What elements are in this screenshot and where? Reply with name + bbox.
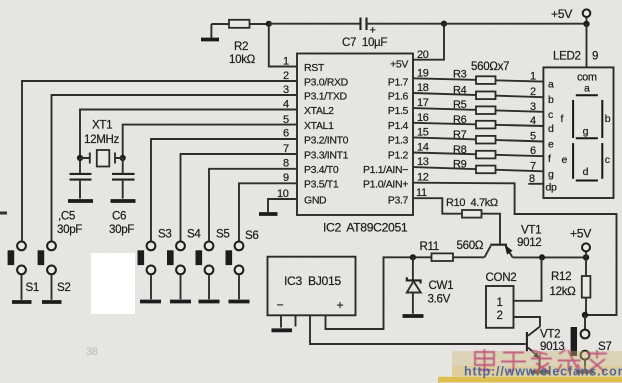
svg-text:P1.5: P1.5 xyxy=(388,105,409,117)
connector CON2 xyxy=(486,271,517,328)
wire pin15 to LED pin5 xyxy=(413,137,543,141)
svg-text:7: 7 xyxy=(530,160,536,172)
svg-text:−: − xyxy=(277,298,284,312)
svg-text:9: 9 xyxy=(283,172,289,184)
resistor R9 xyxy=(453,159,496,174)
wire pin18 to LED pin2 xyxy=(413,93,543,97)
stray scan mark left edge xyxy=(0,212,7,215)
svg-text:11: 11 xyxy=(416,187,427,199)
node XTAL-left xyxy=(77,155,83,161)
svg-text:P1.0/AIN+: P1.0/AIN+ xyxy=(363,179,408,191)
svg-text:b: b xyxy=(548,94,554,106)
resistor R11 xyxy=(420,239,484,261)
ground (S5) xyxy=(199,300,220,304)
resistor R7 xyxy=(453,129,496,144)
svg-text:S6: S6 xyxy=(245,229,258,242)
svg-text:P1.3: P1.3 xyxy=(388,135,409,147)
resistor R6 xyxy=(453,114,496,128)
ground (VT2 emitter) xyxy=(531,370,550,374)
wire LED pin8 dp stub xyxy=(528,183,543,185)
ic IC2 AT89C2051 xyxy=(297,54,413,235)
svg-text:5: 5 xyxy=(530,131,536,143)
svg-text:S3: S3 xyxy=(158,228,171,241)
svg-text:6: 6 xyxy=(530,145,536,157)
watermark highlight band xyxy=(452,351,622,367)
wire IC3 pin minus stub xyxy=(280,315,282,327)
ic IC3 BJ015 xyxy=(268,257,356,316)
ground (S1) xyxy=(12,300,32,304)
svg-text:C6: C6 xyxy=(112,210,126,223)
node B (pin20 junction) xyxy=(441,21,447,27)
svg-text:R8: R8 xyxy=(453,144,467,156)
svg-text:9: 9 xyxy=(592,50,598,63)
segment d xyxy=(576,166,598,181)
svg-text:R2: R2 xyxy=(234,40,248,53)
svg-text:R4: R4 xyxy=(453,85,467,97)
node D (CW1/R11 junction) xyxy=(410,254,416,260)
resistor R8 xyxy=(453,144,496,158)
svg-text:P3.0/RXD: P3.0/RXD xyxy=(304,77,349,89)
svg-text:30pF: 30pF xyxy=(109,223,134,236)
switch S4 xyxy=(167,228,201,300)
svg-text:R5: R5 xyxy=(453,99,467,111)
svg-text:R10 4.7kΩ: R10 4.7kΩ xyxy=(446,197,498,209)
svg-text:VT1: VT1 xyxy=(521,224,541,237)
resistor R2 xyxy=(229,20,256,66)
svg-text:VT2: VT2 xyxy=(540,328,560,341)
wire IC3 stub 2 xyxy=(295,315,297,326)
svg-text:GND: GND xyxy=(304,195,327,207)
svg-text:g: g xyxy=(583,126,589,138)
resistor R12 xyxy=(550,257,591,315)
segment e (lower-left bar) xyxy=(562,143,574,179)
svg-text:12: 12 xyxy=(417,172,429,184)
svg-text:4: 4 xyxy=(530,115,536,127)
svg-text:e: e xyxy=(562,154,568,166)
svg-text:P1.4: P1.4 xyxy=(388,120,409,132)
wire node A to C7 xyxy=(269,23,361,25)
segment c (lower-right bar) xyxy=(602,143,609,179)
switch S2 xyxy=(38,242,71,300)
wire pin17 to LED pin3 xyxy=(413,108,543,112)
svg-text:c: c xyxy=(605,154,610,166)
zener diode CW1 xyxy=(407,257,453,314)
svg-text:S2: S2 xyxy=(57,281,70,294)
svg-text:dp: dp xyxy=(546,182,557,194)
svg-text:CON2: CON2 xyxy=(486,271,517,284)
svg-text:R12: R12 xyxy=(551,270,571,283)
wire IC3 middle pin to VT2 base xyxy=(310,315,526,344)
svg-text:P1.7: P1.7 xyxy=(388,77,409,89)
wire RST drop (node A to pin 1) xyxy=(269,24,297,67)
capacitor C7 xyxy=(342,18,387,50)
led display LED2 xyxy=(543,67,613,198)
svg-text:R3: R3 xyxy=(453,69,467,81)
svg-text:P1.1/AIN−: P1.1/AIN− xyxy=(363,164,408,176)
switch S1 xyxy=(8,242,39,300)
svg-text:c: c xyxy=(548,109,553,121)
svg-text:CW1: CW1 xyxy=(429,279,454,292)
segment g xyxy=(576,126,598,139)
wire pin5 to XT1 right xyxy=(123,125,297,158)
ground (R2 pull-up ground, top-left) xyxy=(201,24,219,40)
svg-text:RST: RST xyxy=(304,62,325,74)
svg-text:P3.3/INT1: P3.3/INT1 xyxy=(304,150,349,162)
wire pin13 to LED pin7 xyxy=(413,167,543,171)
wire pin9 to S6 xyxy=(239,183,297,241)
ground (S7) xyxy=(576,370,594,374)
svg-text:2: 2 xyxy=(497,309,503,322)
wire ground to R2 xyxy=(211,23,229,25)
svg-text:+: + xyxy=(337,298,344,312)
svg-text:b: b xyxy=(605,113,611,125)
wire pin11 to R10 xyxy=(413,198,462,214)
white patch (scan erasure) xyxy=(91,253,135,314)
+5V terminal (top right) xyxy=(551,7,590,22)
ground (S4) xyxy=(170,300,191,304)
wire pin3 to S2 xyxy=(52,95,298,242)
svg-text:13: 13 xyxy=(417,156,429,168)
wire node C to LED2 com pin 9 xyxy=(553,24,598,68)
svg-text:+5V: +5V xyxy=(570,227,592,241)
svg-text:P3.4/T0: P3.4/T0 xyxy=(304,164,339,176)
svg-text:P3.5/T1: P3.5/T1 xyxy=(304,179,339,191)
svg-text:g: g xyxy=(548,168,554,180)
svg-text:10kΩ: 10kΩ xyxy=(229,53,256,66)
resistor R3 xyxy=(453,69,496,84)
ground (S3) xyxy=(140,300,161,304)
svg-text:XT1: XT1 xyxy=(92,119,112,132)
ground (IC2 pin 10 GND) xyxy=(259,199,297,214)
node XTAL-right xyxy=(120,155,126,161)
wire CON2 pin2 to VT2 collector xyxy=(514,317,541,327)
watermark red characters xyxy=(475,349,607,372)
wire pin6 to S3 xyxy=(151,139,297,242)
wire R10 to VT1 base xyxy=(482,214,501,244)
svg-text:3: 3 xyxy=(530,101,536,113)
svg-text:P3.2/INT0: P3.2/INT0 xyxy=(304,135,349,147)
svg-text:C7 10µF: C7 10µF xyxy=(342,36,387,49)
wire pin16 to LED pin4 xyxy=(413,123,543,126)
wire node B to +5V node xyxy=(444,23,587,25)
svg-text:R6: R6 xyxy=(453,114,467,126)
svg-text:560Ω: 560Ω xyxy=(457,239,484,252)
wire CON2 pin1 to node E xyxy=(514,258,542,301)
svg-text:a: a xyxy=(548,79,554,91)
+5V terminal (right) xyxy=(570,227,592,258)
svg-text:12MHz: 12MHz xyxy=(84,133,120,146)
svg-text:9012: 9012 xyxy=(517,236,541,249)
wire pin14 to LED pin6 xyxy=(413,153,543,157)
svg-text:1: 1 xyxy=(497,296,503,309)
resistor R5 xyxy=(453,99,496,114)
switch S6 xyxy=(226,229,259,299)
node C (+5V top junction) xyxy=(583,21,589,27)
node A (RST/C7 junction) xyxy=(266,21,272,27)
wire R2 to node A xyxy=(250,23,269,25)
svg-text:+: + xyxy=(370,25,376,37)
resistor R10 xyxy=(446,197,498,218)
svg-text:a: a xyxy=(584,83,590,95)
svg-text:8: 8 xyxy=(283,158,289,170)
wire VT1 emitter to +5V xyxy=(513,256,587,258)
wire pin4 to XT1 left xyxy=(80,110,297,159)
wire pin12 to S7 net (right edge run) xyxy=(413,183,617,315)
transistor VT2 9013 xyxy=(527,327,565,370)
svg-text:20: 20 xyxy=(417,49,429,61)
wire R11 to VT1 collector xyxy=(453,256,485,258)
ground (C5) xyxy=(68,199,93,203)
ground (CW1) xyxy=(403,314,424,318)
svg-text:XTAL2: XTAL2 xyxy=(304,105,334,117)
svg-text:http://www.elecfans.com: http://www.elecfans.com xyxy=(464,365,622,379)
svg-text:1: 1 xyxy=(530,71,536,83)
svg-text:S4: S4 xyxy=(187,228,201,241)
svg-text:6: 6 xyxy=(283,128,289,140)
svg-text:18: 18 xyxy=(417,82,429,94)
svg-text:30pF: 30pF xyxy=(57,223,82,236)
svg-text:R7: R7 xyxy=(453,129,467,141)
switch S7 xyxy=(571,315,612,370)
svg-text:IC3 BJ015: IC3 BJ015 xyxy=(284,274,341,288)
switch S5 xyxy=(196,228,230,300)
svg-text:XTAL1: XTAL1 xyxy=(304,120,334,132)
svg-text:LED2: LED2 xyxy=(553,50,581,63)
resistor R4 xyxy=(453,85,496,100)
capacitor C5 xyxy=(57,158,92,236)
svg-text:S5: S5 xyxy=(216,228,229,241)
svg-text:S1: S1 xyxy=(26,281,39,294)
svg-text:+5V: +5V xyxy=(551,7,573,21)
crystal XT1 xyxy=(80,119,123,167)
segment f (upper-left bar) xyxy=(561,100,574,138)
svg-text:17: 17 xyxy=(417,97,429,109)
wire pin2 to S1 xyxy=(22,81,297,242)
svg-text:2: 2 xyxy=(530,86,536,98)
wire pin19 to LED pin1 xyxy=(413,78,543,81)
svg-text:P1.6: P1.6 xyxy=(388,91,409,103)
capacitor C6 xyxy=(109,158,135,236)
wire pin8 to S5 xyxy=(209,169,297,242)
svg-text:d: d xyxy=(548,123,554,135)
ground (C6) xyxy=(111,199,136,203)
node F (+5V right junction) xyxy=(583,254,589,260)
segment a xyxy=(576,83,598,96)
svg-text:f: f xyxy=(561,113,564,125)
svg-text:14: 14 xyxy=(417,142,429,154)
transistor VT1 9012 xyxy=(485,224,542,258)
svg-text:38: 38 xyxy=(86,346,98,358)
ground (S6) xyxy=(229,300,250,304)
ground (IC3 minus) xyxy=(272,328,293,332)
svg-text:f: f xyxy=(548,153,551,165)
wire pin7 to S4 xyxy=(181,154,298,242)
svg-text:IC2 AT89C2051: IC2 AT89C2051 xyxy=(323,221,408,235)
segment b (upper-right bar) xyxy=(602,100,610,138)
ground (S2) xyxy=(42,300,62,304)
wire pin20 drop xyxy=(413,24,444,60)
watermark yellow strip xyxy=(438,377,622,383)
switch S3 xyxy=(138,228,172,300)
svg-text:560Ωx7: 560Ωx7 xyxy=(471,60,509,73)
svg-text:P1.2: P1.2 xyxy=(388,150,409,162)
svg-text:8: 8 xyxy=(529,173,535,185)
svg-text:3.6V: 3.6V xyxy=(428,293,451,306)
svg-text:d: d xyxy=(583,166,589,178)
svg-text:1: 1 xyxy=(283,56,289,68)
svg-text:R9: R9 xyxy=(453,159,467,171)
svg-text:,C5: ,C5 xyxy=(58,210,75,223)
node G (R12/S7 junction) xyxy=(582,312,588,318)
wire IC3 plus pin to R11 rail xyxy=(326,257,432,329)
svg-text:P3.7: P3.7 xyxy=(388,195,409,207)
wire C7 to pin20 node xyxy=(367,23,445,25)
node E (VT1/CON2 junction) xyxy=(539,254,545,260)
svg-text:12kΩ: 12kΩ xyxy=(550,285,577,298)
svg-text:R11: R11 xyxy=(420,240,439,253)
svg-text:+5V: +5V xyxy=(390,59,408,71)
svg-text:P3.1/TXD: P3.1/TXD xyxy=(304,91,347,103)
svg-text:e: e xyxy=(548,139,554,151)
